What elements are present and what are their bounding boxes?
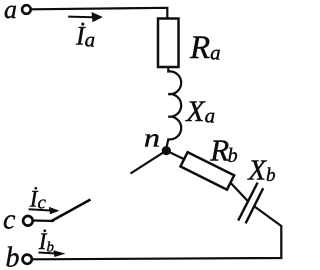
svg-text:b: b [6, 243, 20, 270]
svg-text:c: c [3, 205, 16, 236]
resistor Ra [158, 19, 179, 68]
terminal b [23, 255, 32, 264]
terminal c [23, 216, 33, 226]
svg-text:a: a [4, 0, 17, 24]
terminal a [22, 5, 31, 14]
current arrow Ia [68, 12, 103, 22]
wire c to switch [34, 219, 55, 222]
node n [162, 146, 171, 155]
wire n to switch gap [131, 151, 167, 174]
capacitor Xb plate 2 [246, 188, 264, 223]
wire Rb to Xb [231, 183, 248, 201]
current arrow Ic [29, 207, 60, 214]
capacitor Xb plate 1 [238, 183, 257, 221]
inductor Xa [166, 67, 181, 148]
wire Xb to bottom right corner [33, 207, 281, 260]
wire n to Rb [166, 151, 185, 160]
wire a to Ra [31, 8, 167, 19]
current arrow Ib [39, 250, 66, 257]
resistor Rb [180, 152, 234, 190]
switch blade (open) [52, 200, 91, 222]
svg-text:n: n [144, 124, 160, 152]
